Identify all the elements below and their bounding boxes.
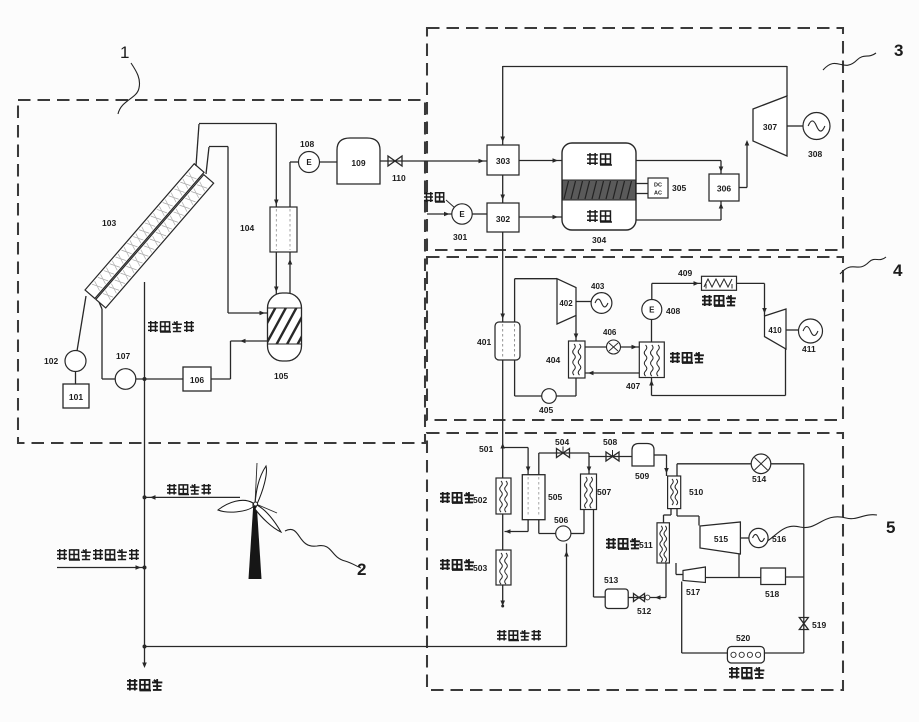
wire PV electrical bus vertical (142, 282, 147, 668)
svg-text:305: 305 (672, 183, 686, 193)
wire 505 to valve 504 line (539, 453, 589, 475)
wire 510 to HX 511 (664, 509, 672, 523)
wire pump 102 to box 101 (75, 372, 77, 385)
svg-text:406: 406 (603, 328, 617, 337)
label 102 (44, 356, 58, 366)
wire 104 right pipe up to pump 108 (290, 162, 299, 207)
condenser 503 (496, 550, 511, 585)
wire box 303 to anode (519, 158, 562, 163)
wire pump 408 to heater 409 (652, 281, 702, 299)
heater 409 (702, 276, 737, 290)
label 504 (555, 437, 569, 447)
label 403 (591, 282, 605, 291)
wire main line region 3 to 4 (500, 232, 505, 322)
wire heater 409 to turbine 410 (737, 283, 767, 316)
wire turbine 402 to generator 403 (576, 301, 591, 303)
wire 510 branch up to fan 514 line (677, 464, 804, 476)
label 407 (626, 381, 640, 391)
svg-text:E: E (306, 158, 312, 167)
label 阳极 (anode) (587, 153, 612, 165)
label 3 with leader squiggle (823, 41, 903, 70)
svg-text:518: 518 (765, 589, 779, 599)
fan 514 (751, 454, 771, 474)
wire 507 to separator 513 (594, 510, 606, 598)
wire right side down line (803, 464, 805, 653)
wire bottom water/steam line (145, 544, 569, 647)
svg-text:502: 502 (473, 495, 487, 505)
svg-text:303: 303 (496, 156, 510, 166)
svg-text:402: 402 (559, 299, 573, 308)
wire collector second outlet down to storage vessel 105 (206, 147, 267, 316)
wire main vertical line from top loop (500, 66, 505, 145)
svg-text:E: E (649, 306, 655, 315)
turbine 410 (765, 309, 787, 349)
svg-text:2: 2 (357, 560, 366, 579)
valve 504 (557, 447, 570, 458)
box 302 (487, 203, 519, 232)
pump 102 (65, 351, 86, 372)
wire electrolyte to inverter 305 (636, 184, 648, 194)
label 510 (689, 487, 703, 497)
pump 107 (115, 369, 136, 390)
valve 512 (634, 594, 650, 602)
wire pump 405 to evaporator 404 (556, 378, 576, 396)
wire pump 506 to tank 505 (539, 520, 556, 534)
svg-text:102: 102 (44, 356, 58, 366)
label 506 (554, 515, 568, 525)
label 513 (604, 575, 618, 585)
svg-text:515: 515 (714, 534, 728, 544)
svg-text:301: 301 (453, 232, 467, 242)
wire turbine 402 exhaust to HX 404 (574, 316, 579, 342)
svg-text:410: 410 (768, 326, 782, 335)
heat exchanger 507 (581, 474, 597, 510)
label 蒸发器503 (440, 559, 487, 573)
wire 510 to turbine 515 (677, 509, 699, 526)
svg-text:4: 4 (893, 261, 903, 280)
svg-text:501: 501 (479, 444, 493, 454)
label 发电侧发电设备 (grid-side equipment) (57, 549, 139, 560)
wire HX 407 to HX 404 lower (585, 371, 639, 376)
label 505 (548, 492, 562, 502)
svg-text:3: 3 (894, 41, 903, 60)
label 105 (274, 371, 288, 381)
label 2 with leader squiggle (285, 529, 366, 579)
wire collector bottom to pump 102 (77, 296, 86, 351)
label 308 (808, 149, 822, 159)
wire wind turbine line to bus (145, 495, 241, 500)
label 514 (752, 474, 766, 484)
wire 303 to 302 (500, 175, 505, 203)
wire 511 to ejector 517 (676, 563, 683, 575)
wire box 518 to right line (786, 576, 804, 578)
wire HX 507 to pump 506 (571, 510, 584, 534)
wire 502 to 503 (502, 514, 504, 550)
generator 308 (803, 113, 830, 140)
dashed boundary box of subsystem 4 (427, 257, 843, 420)
wire turbine exhaust top loop (503, 66, 787, 96)
label 4 with leader squiggle (840, 257, 903, 280)
svg-text:106: 106 (190, 375, 204, 385)
pump 408 (642, 300, 662, 320)
wire pump 107 to collector return (99, 302, 115, 379)
node junction grid line on bus (143, 566, 147, 570)
wire combustor 306 to turbine 307 (739, 140, 749, 188)
label 5 with leader squiggle (750, 515, 895, 545)
label 508 (603, 437, 617, 447)
label 304 (592, 235, 606, 245)
svg-text:517: 517 (686, 587, 700, 597)
label 408 (666, 306, 680, 316)
svg-text:104: 104 (240, 223, 254, 233)
wire vessel 105 up to 104 return pipe (288, 252, 293, 296)
generator 516 (749, 528, 768, 547)
box 303 (487, 145, 519, 175)
wire left ORC loop left/bottom (515, 279, 542, 396)
label 103 (102, 218, 116, 228)
label 水蒸发电 (water/steam line) (497, 630, 541, 641)
svg-text:307: 307 (763, 122, 777, 132)
label 蒸发器511 (606, 538, 653, 550)
label 507 (597, 487, 611, 497)
solar collector 103 lower tube (96, 175, 214, 308)
wire regenerator 520 to ejector 517 (682, 582, 728, 654)
label 1 with leader squiggle (118, 43, 140, 114)
pump 108 (299, 152, 320, 173)
label 501 (479, 444, 493, 454)
label 104 (240, 223, 254, 233)
label 110 (392, 173, 406, 183)
label 519 (812, 620, 826, 630)
fuel cell stack 304 (562, 143, 636, 230)
svg-text:516: 516 (772, 534, 786, 544)
svg-text:504: 504 (555, 437, 569, 447)
wire cathode outlet to combustor 306 (636, 201, 723, 220)
wire box 302 to cathode (519, 215, 562, 220)
label 风力发电 (wind power) (167, 484, 211, 495)
reformer 401 (495, 322, 520, 360)
label 蒸发器 (evaporator) of 407 (670, 352, 704, 363)
wire air inlet (427, 200, 455, 216)
svg-text:308: 308 (808, 149, 822, 159)
dashed boundary box of subsystem 1 (18, 100, 425, 443)
dashed boundary box of subsystem 5 (427, 433, 843, 690)
wire grid equipment line to bus (57, 565, 145, 570)
regenerator 520 (727, 647, 764, 664)
svg-text:DC: DC (654, 183, 662, 189)
label 电解槽 (electrolyzer) (127, 679, 162, 691)
box 518 (761, 568, 786, 585)
combustor 306 (709, 174, 739, 201)
label 108 (300, 139, 314, 149)
svg-text:514: 514 (752, 474, 766, 484)
label 512 (637, 606, 651, 616)
box 101 (63, 384, 89, 408)
svg-text:511: 511 (639, 540, 653, 550)
heat exchanger 510 (668, 476, 681, 509)
wire 505 return to main line (505, 520, 529, 534)
label 520 (736, 633, 750, 643)
tank 509 (632, 444, 654, 467)
wire turbine 410 to generator 411 (786, 329, 799, 331)
label 406 (603, 328, 617, 337)
svg-text:306: 306 (717, 184, 731, 194)
pump 506 (556, 526, 571, 541)
svg-text:519: 519 (812, 620, 826, 630)
wire 401 to main line region 5 (502, 360, 504, 478)
label 409 (678, 268, 692, 278)
blower 301 (452, 204, 472, 224)
wind turbine 2 (218, 463, 281, 579)
pump 405 (542, 389, 557, 404)
wire 104 to vessel 105 down pipe (274, 252, 279, 294)
wire main line arrow up 501 (500, 443, 505, 449)
label 301 (453, 232, 467, 242)
turbine 515 (700, 522, 740, 554)
inverter 305 (648, 178, 668, 198)
label 516 (772, 534, 786, 544)
wire valve 512 line (628, 595, 666, 600)
wire 517 to box 518 (705, 577, 760, 579)
svg-text:404: 404 (546, 355, 560, 365)
generator 403 (591, 293, 612, 314)
svg-text:403: 403 (591, 282, 605, 291)
wire turbine 307 to generator 308 (787, 125, 803, 127)
node junction bottom line on bus (143, 645, 147, 649)
label 回热器 (regenerator) (729, 667, 764, 679)
svg-text:509: 509 (635, 471, 649, 481)
label 107 (116, 351, 130, 361)
wire HX 407 to pump 408 (651, 320, 653, 343)
separator 513 (605, 589, 628, 609)
svg-text:409: 409 (678, 268, 692, 278)
box 106 (183, 367, 211, 391)
label 阴极 (cathode) (587, 210, 612, 222)
svg-text:520: 520 (736, 633, 750, 643)
ejector 517 (683, 567, 705, 583)
wire bottom loop to regenerator 520 (764, 652, 804, 654)
wire 511 to valve 512 line (665, 563, 667, 598)
svg-text:407: 407 (626, 381, 640, 391)
label 加热器 (heater) of 409 (702, 295, 736, 306)
svg-text:507: 507 (597, 487, 611, 497)
wire turbine 515 to generator 516 (740, 537, 749, 539)
turbine 402 (557, 279, 576, 324)
wire down into HX 507 (587, 453, 592, 474)
wire main line end arrow (500, 585, 505, 608)
label 509 (635, 471, 649, 481)
wire blower 301 to box 302 (472, 213, 487, 215)
svg-text:AC: AC (654, 191, 662, 197)
svg-text:109: 109 (351, 158, 365, 168)
svg-text:405: 405 (539, 405, 553, 415)
node junction PV bus and heat pipe (143, 377, 147, 381)
label 405 (539, 405, 553, 415)
heat exchanger 511 (657, 523, 669, 563)
svg-text:508: 508 (603, 437, 617, 447)
svg-text:513: 513 (604, 575, 618, 585)
heat exchanger 404 (569, 341, 586, 378)
wire anode outlet to combustor 306 (636, 161, 723, 175)
svg-text:408: 408 (666, 306, 680, 316)
label 518 (765, 589, 779, 599)
svg-text:103: 103 (102, 218, 116, 228)
label 404 (546, 355, 560, 365)
svg-text:506: 506 (554, 515, 568, 525)
node junction wind line on bus (143, 495, 147, 499)
wire box 106 to pump 107 (136, 378, 183, 380)
heat exchanger 407 (639, 342, 664, 378)
flash tank 505 (522, 475, 545, 520)
svg-text:304: 304 (592, 235, 606, 245)
valve 110 (388, 156, 402, 166)
wire turbine 410 exhaust to HX 407 (649, 349, 785, 396)
circulation pump 406 (607, 340, 621, 354)
dashed boundary box of subsystem 3 (427, 28, 843, 250)
valve 508 (606, 450, 619, 461)
wire branch to tank 505 (503, 448, 531, 475)
label 蒸发器502 (440, 492, 487, 505)
svg-text:510: 510 (689, 487, 703, 497)
wire pump 108 to tank 109 (320, 161, 338, 163)
solar collector 103 upper tube (85, 164, 204, 299)
label 401 (477, 337, 491, 347)
condenser 502 (496, 478, 511, 514)
generator 411 (799, 319, 823, 343)
svg-text:512: 512 (637, 606, 651, 616)
wire tank 109 to box 303 (380, 159, 487, 164)
svg-text:E: E (459, 210, 465, 219)
label 光伏发电 (PV generation) (148, 321, 194, 332)
turbine 307 (753, 96, 787, 156)
label 411 (802, 344, 816, 354)
svg-text:107: 107 (116, 351, 130, 361)
valve 519 (799, 618, 808, 630)
wire left ORC loop top (515, 278, 557, 280)
hydrogen tank 109 (337, 138, 380, 184)
wire turbine 515 exhaust down (738, 554, 740, 578)
svg-text:108: 108 (300, 139, 314, 149)
wire tank 509 to HX 510 (654, 455, 669, 476)
svg-text:411: 411 (802, 344, 816, 354)
svg-text:401: 401 (477, 337, 491, 347)
label 305 (672, 183, 686, 193)
svg-text:105: 105 (274, 371, 288, 381)
svg-text:5: 5 (886, 518, 895, 537)
svg-text:101: 101 (69, 392, 83, 402)
svg-text:505: 505 (548, 492, 562, 502)
svg-text:503: 503 (473, 563, 487, 573)
label 空气 (air) (424, 192, 445, 202)
label 517 (686, 587, 700, 597)
wire HX 404 to HX 407 upper (585, 345, 639, 350)
wire valve 508 line to tank 509 (589, 456, 632, 458)
svg-text:1: 1 (120, 43, 129, 62)
heat exchanger 104 (270, 207, 297, 252)
svg-text:302: 302 (496, 214, 510, 224)
wire heat loop vessel 105 to box 106 (211, 339, 267, 379)
wire collector top outlet to header of tank 104 (196, 124, 279, 208)
svg-text:110: 110 (392, 173, 406, 183)
storage vessel 105 (254, 293, 320, 361)
